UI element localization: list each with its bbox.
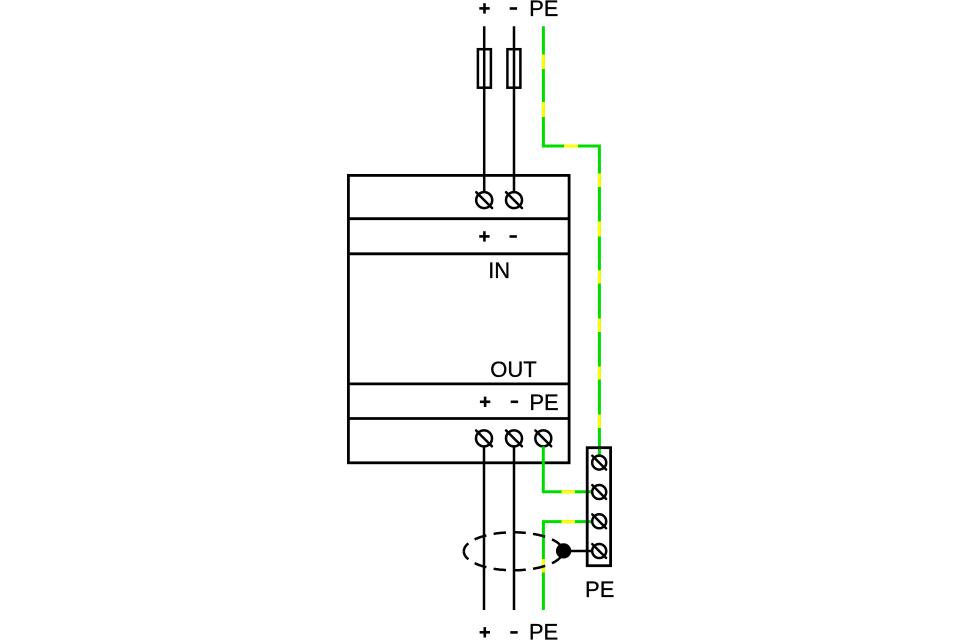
junction shield to PE <box>557 545 570 558</box>
fuse F1 <box>478 49 491 87</box>
terminal U1 OUT + <box>476 430 492 446</box>
terminal X1:3 <box>592 514 606 528</box>
svg-text:IN: IN <box>488 258 510 283</box>
node output L+ label <box>480 627 490 637</box>
wire shield junction to X1:4 <box>564 550 593 553</box>
fuse F2 <box>507 49 520 87</box>
U1 divider below input terminals <box>348 217 569 220</box>
terminal U1 IN - <box>506 192 522 208</box>
wire input L+ <box>483 26 486 192</box>
svg-text:PE: PE <box>529 620 558 640</box>
node L- input label <box>510 7 517 10</box>
label U1 OUT - <box>511 400 518 403</box>
U1 divider below input polarity row <box>348 252 569 255</box>
terminal U1 OUT PE <box>535 430 551 446</box>
terminal X1:2 <box>592 485 606 499</box>
U1 divider above output polarity row <box>348 382 569 385</box>
wire input L- <box>513 26 516 192</box>
svg-text:PE: PE <box>529 0 558 21</box>
terminal U1 IN + <box>476 192 492 208</box>
node L+ input label <box>479 3 489 13</box>
wire shield PE down (green/yellow) <box>543 522 592 610</box>
U1 divider above output terminals <box>348 417 569 420</box>
terminal U1 OUT - <box>506 430 522 446</box>
power supply U1 outline <box>348 175 569 462</box>
PE terminal block outline <box>587 448 610 566</box>
wire output L+ <box>483 446 486 610</box>
terminal X1:1 <box>592 456 606 470</box>
node output L- label <box>510 631 517 634</box>
svg-text:PE: PE <box>585 577 614 602</box>
terminal X1:4 <box>592 544 606 558</box>
label U1 IN + <box>479 231 489 241</box>
svg-text:PE: PE <box>529 390 558 415</box>
wire output L- <box>513 446 516 610</box>
label U1 IN - <box>510 235 517 238</box>
label U1 OUT + <box>480 397 490 407</box>
svg-text:OUT: OUT <box>490 357 536 382</box>
cable shield ellipse <box>464 532 562 570</box>
wire output PE to block (green/yellow) <box>543 446 592 491</box>
wire input PE (green/yellow) <box>543 26 599 455</box>
